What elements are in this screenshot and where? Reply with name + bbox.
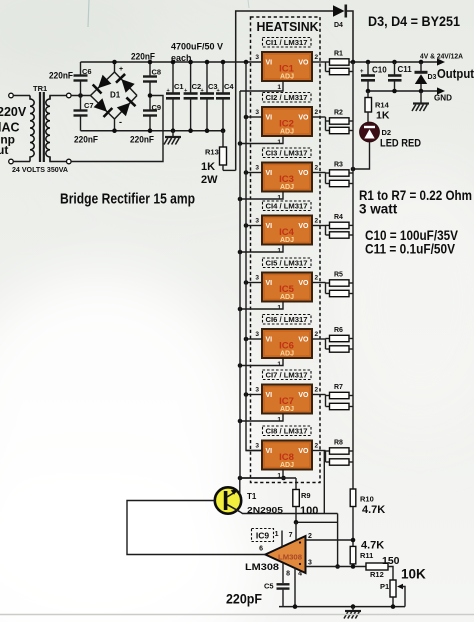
svg-text:+: + xyxy=(167,88,170,94)
svg-text:2: 2 xyxy=(315,165,319,172)
svg-text:3: 3 xyxy=(255,165,259,172)
svg-text:2: 2 xyxy=(315,218,319,225)
wire VI stub IC8 xyxy=(246,450,262,452)
svg-text:ADJ: ADJ xyxy=(280,74,294,81)
node bottom rail junctions xyxy=(293,604,298,609)
svg-text:R4: R4 xyxy=(334,214,343,221)
resistor pair R6 xyxy=(326,335,354,352)
scan artifact line xyxy=(0,614,474,616)
wire ADJ IC8 to R9 top xyxy=(240,470,283,479)
output arrow xyxy=(437,58,445,65)
pin 3 wire xyxy=(306,566,367,568)
node C3 top/bottom xyxy=(205,60,210,65)
wire T1 collector to ADJ bus xyxy=(239,478,241,494)
svg-text:VI: VI xyxy=(266,223,273,230)
svg-text:220nF: 220nF xyxy=(130,135,154,145)
wire ADJ IC6 xyxy=(240,358,283,366)
resistor pair R8 xyxy=(326,448,354,465)
wire secondary top lead xyxy=(50,96,66,100)
svg-text:R3: R3 xyxy=(334,162,343,169)
wire R9 bottom to sense line xyxy=(296,521,338,523)
svg-text:R1: R1 xyxy=(334,51,343,58)
wire output rail xyxy=(353,61,440,63)
wire secondary bottom lead xyxy=(50,157,66,162)
svg-text:VI: VI xyxy=(266,392,273,399)
wire R12 to P1 xyxy=(388,567,393,581)
svg-text:6: 6 xyxy=(259,546,263,553)
svg-text:R11: R11 xyxy=(360,551,373,560)
svg-text:VI: VI xyxy=(266,170,273,177)
svg-text:1: 1 xyxy=(277,417,281,424)
heatsink dashed enclosure xyxy=(251,17,321,483)
svg-text:R14: R14 xyxy=(375,101,390,110)
svg-text:T1: T1 xyxy=(247,492,257,501)
svg-text:VI: VI xyxy=(266,448,273,455)
capacitor C8 xyxy=(143,62,157,96)
resistor pair R7 xyxy=(326,392,354,409)
svg-text:R13: R13 xyxy=(205,148,219,157)
diode D1 bottom-right arm xyxy=(117,103,130,117)
label 220V AC Input (clipped) xyxy=(0,105,27,157)
svg-text:R10: R10 xyxy=(360,495,374,504)
wire VI stub IC7 xyxy=(246,394,262,396)
wire gnd rail xyxy=(368,90,440,92)
svg-text:1: 1 xyxy=(277,248,281,255)
voltage regulator IC6 (LM317) xyxy=(262,329,312,358)
diode D1 bottom-left arm xyxy=(94,98,107,111)
svg-text:C11: C11 xyxy=(398,65,413,74)
svg-text:+: + xyxy=(201,88,204,94)
svg-text:D4: D4 xyxy=(334,22,343,29)
svg-text:3: 3 xyxy=(255,387,259,394)
svg-text:ADJ: ADJ xyxy=(280,294,294,301)
wire IC8 VO sense xyxy=(323,451,325,514)
VI bus xyxy=(246,62,262,451)
svg-text:220nF: 220nF xyxy=(74,135,98,145)
svg-text:10K: 10K xyxy=(401,567,426,582)
svg-text:ADJ: ADJ xyxy=(280,129,294,136)
svg-text:VO: VO xyxy=(298,170,309,177)
svg-text:1: 1 xyxy=(277,84,281,91)
voltage regulator IC7 (LM317) xyxy=(262,385,312,414)
resistor pair R2 xyxy=(326,117,354,134)
svg-text:1: 1 xyxy=(277,139,281,146)
bridge rectifier D1 diamond xyxy=(91,62,138,131)
node R11 bottom xyxy=(351,564,356,569)
svg-text:ADJ: ADJ xyxy=(280,237,294,244)
svg-text:R9: R9 xyxy=(301,491,311,500)
ground symbol below D3 xyxy=(420,91,422,104)
svg-text:3: 3 xyxy=(255,443,259,450)
svg-text:VI: VI xyxy=(266,60,273,67)
svg-text:C10: C10 xyxy=(372,66,387,75)
capacitor C9 xyxy=(143,96,157,131)
svg-text:ut: ut xyxy=(0,143,8,157)
IC label box CI3 / LM317 xyxy=(263,148,312,158)
IC label box CI6 / LM317 xyxy=(263,315,312,325)
wire ADJ IC5 xyxy=(240,302,283,310)
diode D1 top-left arm xyxy=(98,75,111,88)
capacitor C2 xyxy=(184,62,198,131)
voltage regulator IC5 (LM317) xyxy=(262,273,312,302)
resistor pair R4 xyxy=(326,222,354,238)
svg-text:VO: VO xyxy=(298,280,309,287)
wire D4 to output rail xyxy=(347,11,353,62)
svg-text:ADJ: ADJ xyxy=(280,351,294,358)
svg-text:C7: C7 xyxy=(84,101,94,110)
svg-text:4V & 24V/12A: 4V & 24V/12A xyxy=(420,54,463,61)
svg-text:Bridge Rectifier 15 amp: Bridge Rectifier 15 amp xyxy=(60,192,195,208)
pin 4 wire xyxy=(294,568,296,607)
svg-text:ADJ: ADJ xyxy=(280,184,294,191)
svg-text:2: 2 xyxy=(315,109,319,116)
wire top rail via D4 xyxy=(236,11,333,170)
svg-text:+: + xyxy=(184,88,187,94)
svg-text:4.7K: 4.7K xyxy=(361,540,384,552)
R output bus xyxy=(352,62,354,489)
svg-text:4700uF/50 V: 4700uF/50 V xyxy=(171,42,223,52)
ground symbol bottom xyxy=(352,607,354,611)
capacitor C7 xyxy=(74,96,88,131)
svg-text:VI: VI xyxy=(266,280,273,287)
resistor R11 xyxy=(350,546,356,566)
wire VO IC5 to R5 xyxy=(312,282,326,284)
resistor pair R3 xyxy=(326,170,354,187)
svg-text:CI2 / LM317: CI2 / LM317 xyxy=(266,93,308,102)
svg-text:D3, D4 = BY251: D3, D4 = BY251 xyxy=(368,14,460,29)
svg-text:100: 100 xyxy=(300,505,318,517)
svg-text:P1: P1 xyxy=(380,582,389,591)
svg-text:2: 2 xyxy=(315,331,319,338)
svg-text:D3: D3 xyxy=(428,74,437,81)
capacitor C11 xyxy=(388,62,402,91)
svg-text:4.7K: 4.7K xyxy=(362,504,385,516)
svg-text:LED RED: LED RED xyxy=(380,138,421,150)
svg-text:1: 1 xyxy=(275,531,279,538)
svg-text:1: 1 xyxy=(277,361,281,368)
svg-text:CI7 / LM317: CI7 / LM317 xyxy=(266,371,308,380)
gnd arrow xyxy=(437,87,445,94)
resistor pair R5 xyxy=(326,280,354,297)
wire VI stub IC5 xyxy=(246,282,262,284)
svg-text:C5: C5 xyxy=(264,582,274,591)
svg-text:VO: VO xyxy=(298,60,309,67)
svg-text:VI: VI xyxy=(266,337,273,344)
svg-text:2: 2 xyxy=(315,275,319,282)
node + rail junctions xyxy=(112,60,117,65)
svg-text:3: 3 xyxy=(255,275,259,282)
svg-text:2: 2 xyxy=(315,387,319,394)
pin 2 wire xyxy=(306,539,354,541)
wire ADJ IC3 xyxy=(240,192,283,200)
svg-text:-: - xyxy=(119,117,122,127)
terminal secondary top xyxy=(67,93,72,98)
svg-text:VO: VO xyxy=(298,115,309,122)
svg-text:3: 3 xyxy=(255,331,259,338)
wire + rail xyxy=(81,61,263,63)
svg-text:Output: Output xyxy=(437,67,474,81)
svg-text:2: 2 xyxy=(315,54,319,61)
wire secondary bottom to bridge right AC node xyxy=(71,96,163,162)
svg-text:C6: C6 xyxy=(82,67,92,76)
wire sense drop to pin3 xyxy=(337,514,339,567)
potentiometer P1 xyxy=(390,580,396,607)
diode D4 xyxy=(333,5,345,17)
capacitor C10 xyxy=(361,62,375,91)
svg-text:220pF: 220pF xyxy=(226,592,262,607)
IC label box CI4 / LM317 xyxy=(263,201,312,211)
resistor R12 xyxy=(366,563,388,570)
wire ADJ IC1 xyxy=(240,81,283,91)
pin 6 output wire to T1 base xyxy=(127,501,265,555)
capacitor C3 xyxy=(200,62,214,131)
wire VI stub IC3 xyxy=(246,172,262,174)
svg-text:R5: R5 xyxy=(334,272,343,279)
svg-text:ADJ: ADJ xyxy=(280,462,294,469)
svg-text:LM308: LM308 xyxy=(245,562,279,573)
capacitor C1 xyxy=(166,62,180,131)
transformer TR1 xyxy=(9,92,50,164)
IC label box CI5 / LM317 xyxy=(263,258,312,268)
diode D3 xyxy=(415,62,428,91)
svg-text:IC9: IC9 xyxy=(256,531,270,541)
wire VI stub IC6 xyxy=(246,338,262,340)
resistor R10 xyxy=(350,489,356,507)
svg-text:C1: C1 xyxy=(174,82,184,91)
IC label box CI8 / LM317 xyxy=(263,426,312,436)
svg-text:1: 1 xyxy=(277,305,281,312)
voltage regulator IC2 (LM317) xyxy=(262,107,312,136)
svg-text:D1: D1 xyxy=(110,91,121,100)
node output rail junctions xyxy=(351,60,356,65)
LED D2 xyxy=(360,122,380,142)
ground symbol at - rail xyxy=(172,131,174,137)
svg-text:3 watt: 3 watt xyxy=(359,202,398,217)
wire R13 bottom to raw + via bleeder line xyxy=(223,169,236,171)
node - rail junctions xyxy=(112,128,117,133)
svg-text:D2: D2 xyxy=(382,128,392,137)
svg-text:R7: R7 xyxy=(334,384,343,391)
resistor R9 xyxy=(293,478,300,522)
IC label box CI2 / LM317 xyxy=(263,93,312,103)
svg-text:VO: VO xyxy=(298,392,309,399)
voltage regulator IC8 (LM317) xyxy=(262,441,312,470)
svg-text:3: 3 xyxy=(255,109,259,116)
svg-text:220nF: 220nF xyxy=(131,52,155,62)
wire bottom rail xyxy=(279,606,405,608)
svg-text:1K: 1K xyxy=(376,110,390,122)
svg-text:3: 3 xyxy=(255,218,259,225)
svg-text:CI6 / LM317: CI6 / LM317 xyxy=(266,315,308,324)
resistor R13 xyxy=(220,131,227,171)
svg-text:GND: GND xyxy=(434,93,452,103)
IC label box CI7 / LM317 xyxy=(263,370,312,380)
wire VO IC1 to R1 xyxy=(312,61,326,63)
svg-text:220V: 220V xyxy=(0,105,27,119)
terminal secondary bottom xyxy=(67,159,72,164)
svg-text:CI1 / LM317: CI1 / LM317 xyxy=(266,38,308,47)
wire VO IC7 to R7 xyxy=(312,394,326,396)
wire ADJ IC4 xyxy=(240,245,283,253)
wire - rail xyxy=(81,130,224,132)
ADJ bus xyxy=(239,91,241,478)
IC label box CI1 / LM317 xyxy=(263,38,312,48)
svg-text:R6: R6 xyxy=(334,327,343,334)
op-amp IC9 LM308 xyxy=(265,536,305,573)
wire ADJ IC7 xyxy=(240,414,283,422)
svg-text:VO: VO xyxy=(298,223,309,230)
wire VO IC4 to R4 xyxy=(312,225,326,227)
svg-text:+: + xyxy=(360,69,364,75)
wire ADJ line to R9 xyxy=(240,477,296,479)
svg-text:VI: VI xyxy=(266,115,273,122)
wire ADJ IC2 xyxy=(240,136,283,144)
pin 7 wire xyxy=(295,522,297,540)
node C1 top/bottom xyxy=(171,60,176,65)
svg-text:1K: 1K xyxy=(201,161,215,173)
wire VI stub IC2 xyxy=(246,116,262,118)
diode D1 top-right arm xyxy=(121,79,134,93)
voltage regulator IC1 (LM317) xyxy=(262,52,312,81)
P1 wiper xyxy=(397,584,405,607)
resistor R14 xyxy=(365,91,372,122)
svg-text:7: 7 xyxy=(289,532,293,539)
svg-text:3: 3 xyxy=(255,54,259,61)
svg-text:8: 8 xyxy=(286,571,290,578)
svg-text:2: 2 xyxy=(315,443,319,450)
svg-text:TR1: TR1 xyxy=(33,84,47,93)
svg-text:+: + xyxy=(119,66,123,73)
node gnd rail junctions xyxy=(366,89,371,94)
node C2 top/bottom xyxy=(188,60,193,65)
svg-text:VO: VO xyxy=(298,337,309,344)
scan artifact faint line xyxy=(88,0,89,27)
svg-text:ADJ: ADJ xyxy=(280,406,294,413)
op-amp input marks xyxy=(299,541,301,543)
pin 8 wire to C5 xyxy=(282,563,284,584)
capacitor C4 xyxy=(216,62,230,131)
wire VO IC3 to R3 xyxy=(312,172,326,174)
wire VO IC8 to R8 xyxy=(312,450,326,452)
svg-text:150: 150 xyxy=(382,555,400,567)
svg-text:VO: VO xyxy=(298,448,309,455)
svg-text:+: + xyxy=(217,88,220,94)
capacitor C6 xyxy=(74,62,88,96)
capacitor C5 xyxy=(277,584,290,606)
svg-text:CI5 / LM317: CI5 / LM317 xyxy=(266,259,308,268)
wire D2 to R bus xyxy=(353,142,370,169)
wire R10 to pin2 node xyxy=(352,507,354,547)
svg-text:24 VOLTS 350VA: 24 VOLTS 350VA xyxy=(12,167,68,174)
svg-text:C9: C9 xyxy=(152,103,162,112)
svg-text:4: 4 xyxy=(298,571,302,578)
node C8 C9 AC junction xyxy=(148,93,153,98)
resistor pair R1 xyxy=(326,59,354,75)
wire T1 emitter xyxy=(240,512,338,514)
voltage regulator IC3 (LM317) xyxy=(262,163,312,192)
svg-text:2W: 2W xyxy=(201,174,218,186)
svg-text:3: 3 xyxy=(308,560,312,567)
label IC9 dashed box xyxy=(252,529,274,542)
svg-text:CI8 / LM317: CI8 / LM317 xyxy=(266,427,308,436)
svg-text:220nF: 220nF xyxy=(49,71,73,81)
svg-text:C11 = 0.1uF/50V: C11 = 0.1uF/50V xyxy=(365,242,455,257)
svg-text:CI4 / LM317: CI4 / LM317 xyxy=(266,202,308,211)
node C4 top/bottom xyxy=(221,60,226,65)
svg-text:2: 2 xyxy=(308,533,312,540)
svg-text:C8: C8 xyxy=(152,68,162,77)
wire VO IC6 to R6 xyxy=(312,338,326,340)
svg-text:R8: R8 xyxy=(334,440,343,447)
pin 1 tick xyxy=(281,531,283,548)
svg-text:R2: R2 xyxy=(334,110,343,117)
svg-text:CI3 / LM317: CI3 / LM317 xyxy=(266,149,308,158)
wire VI stub IC4 xyxy=(246,225,262,227)
voltage regulator IC4 (LM317) xyxy=(262,216,312,245)
svg-text:C4: C4 xyxy=(224,82,234,91)
svg-text:HEATSINK: HEATSINK xyxy=(257,19,320,34)
svg-text:R12: R12 xyxy=(370,570,384,579)
transistor T1 2N2905 xyxy=(215,487,241,513)
wire to AC node left xyxy=(71,95,90,97)
wire VO IC2 to R2 xyxy=(312,116,326,118)
svg-text:LM308: LM308 xyxy=(278,555,302,562)
